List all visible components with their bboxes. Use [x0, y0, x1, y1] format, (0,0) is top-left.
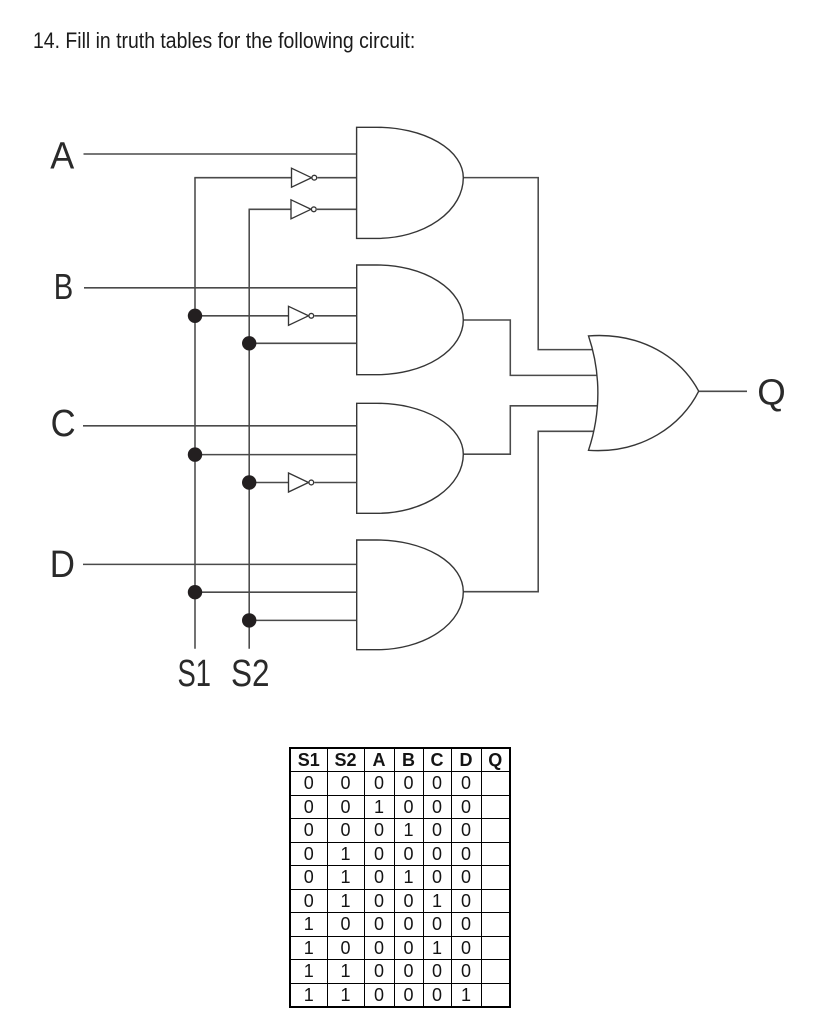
wire inverter U4 output to gate3	[315, 482, 359, 484]
wire gate2 output to OR	[462, 320, 599, 375]
wire B input	[84, 287, 358, 289]
wire S2 to inverter U2	[249, 208, 292, 210]
AND gate G3	[357, 403, 464, 513]
wire inverter U3 output to gate2	[315, 315, 359, 317]
OR gate G5	[589, 336, 699, 451]
AND gate G4	[357, 540, 464, 650]
wire A input	[84, 153, 359, 155]
AND gate G1	[357, 127, 464, 238]
wire gate3 output to OR	[462, 406, 599, 454]
junction dot S2-D	[242, 613, 256, 627]
wire gate4 output to OR	[462, 431, 599, 591]
wire S1 tap to inverter U3	[195, 315, 289, 317]
wire S1 vertical bus	[194, 178, 196, 649]
truth table	[289, 747, 511, 1008]
wire S1 to inverter U1	[194, 177, 291, 179]
svg-text:D: D	[50, 544, 75, 586]
junction dot S2-C	[242, 475, 256, 489]
junction dot S2-B	[242, 336, 256, 350]
wire S2 tap to inverter U4	[249, 482, 288, 484]
svg-text:A: A	[50, 135, 75, 177]
wire S2 tap to gate4	[249, 619, 358, 621]
svg-text:Q: Q	[757, 372, 786, 413]
wire gate1 output to OR	[462, 178, 599, 350]
wire D input	[83, 563, 358, 565]
junction dot S1-C	[188, 447, 202, 461]
svg-text:C: C	[51, 403, 76, 445]
inverter U2	[291, 200, 316, 219]
wire C input	[83, 425, 358, 427]
junction dot S1-B	[188, 309, 202, 323]
wire inverter U2 output to gate1	[317, 208, 358, 210]
svg-text:B: B	[54, 266, 74, 307]
wire S2 tap to gate2	[249, 342, 358, 344]
AND gate G2	[357, 265, 464, 375]
wire S1 tap to gate4	[195, 591, 358, 593]
svg-text:S2: S2	[231, 653, 270, 695]
wire OR output to Q	[697, 390, 747, 392]
junction dot S1-D	[188, 585, 202, 599]
wire S2 vertical bus	[248, 209, 250, 648]
svg-text:S1: S1	[178, 653, 212, 695]
wire inverter U1 output to gate1	[318, 177, 359, 179]
wire S1 tap to gate3	[195, 454, 358, 456]
inverter U3	[289, 306, 314, 325]
inverter U4	[289, 473, 314, 492]
inverter U1	[292, 168, 317, 187]
